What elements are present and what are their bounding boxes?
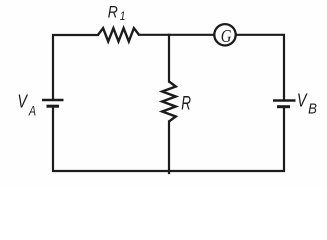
resistor R1 [98, 28, 139, 41]
svg-text:1: 1 [120, 11, 126, 24]
wire: left branch top (battery VA top plate up to top-left corner, right to R1) [53, 35, 98, 99]
battery VA long plate [42, 99, 64, 101]
galvanometer G circle [214, 24, 235, 45]
wire: middle branch top (node to resistor R) [168, 35, 170, 82]
wire: bottom left segment [53, 108, 169, 171]
svg-text:V: V [297, 90, 308, 111]
svg-text:R: R [108, 3, 118, 22]
svg-text:B: B [308, 100, 317, 117]
battery VB short plate [277, 105, 290, 108]
svg-text:V: V [17, 91, 28, 112]
svg-text:G: G [221, 26, 232, 47]
svg-text:A: A [28, 103, 36, 118]
svg-text:R: R [181, 93, 191, 114]
wire: top right (galvanometer to top-right corner, down to VB) [236, 35, 284, 100]
wire: right branch bottom (VB down to bottom-right corner) [169, 108, 284, 171]
battery VA short plate [47, 105, 60, 108]
wire: middle branch bottom (resistor R to bottom node) [168, 122, 170, 174]
battery VB long plate [273, 99, 296, 101]
wire: top middle (R1 to galvanometer, through node at x=169) [139, 34, 214, 36]
resistor R [162, 82, 176, 122]
